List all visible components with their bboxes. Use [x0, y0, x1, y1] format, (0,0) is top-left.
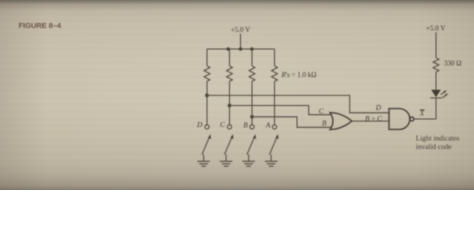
svg-text:FIGURE 8–4: FIGURE 8–4 — [19, 21, 62, 30]
NAND output bubble — [410, 117, 414, 121]
svg-text:D: D — [196, 121, 203, 129]
wire node B to OR bottom input — [252, 117, 331, 128]
wire node D to NAND top input — [207, 95, 389, 112]
switch SW-D contact circle — [205, 125, 209, 129]
svg-text:C: C — [319, 107, 324, 115]
resistor R2 (pull-up, C column) — [227, 66, 233, 81]
wire +5V stub (left) — [240, 34, 242, 49]
junction dot rail at C column — [226, 47, 230, 51]
svg-text:B: B — [322, 120, 327, 128]
wire rail to resistor R3 — [251, 49, 253, 66]
LED D1 cathode bar — [430, 97, 441, 99]
svg-text:D: D — [375, 104, 382, 112]
resistor R3 (pull-up, B column) — [249, 66, 255, 81]
NAND gate U2 — [389, 109, 410, 130]
wire NAND output to LED branch — [414, 118, 436, 120]
junction dot node D — [205, 94, 209, 98]
svg-text:330 Ω: 330 Ω — [444, 59, 461, 67]
switch SW-A contact circle — [272, 125, 276, 129]
wire resistor to LED anode — [435, 72, 437, 90]
wire SW-A to ground — [270, 154, 272, 161]
ground (D switch) — [197, 161, 210, 166]
junction dot node B — [250, 115, 254, 119]
junction dot node C — [228, 104, 232, 108]
ground (A switch) — [265, 161, 278, 166]
resistor R4 (pull-up, A column) — [272, 66, 278, 81]
resistor R5 330 ohm — [433, 58, 439, 72]
wire LED cathode down to output node — [435, 99, 437, 120]
wire SW-B to ground — [248, 154, 250, 161]
LED light arrow 2 — [442, 94, 447, 97]
LED D1 triangle — [431, 90, 441, 97]
ground (C switch) — [220, 161, 233, 166]
switch SW-A lever with arrowhead — [269, 136, 277, 155]
svg-text:+5.0 V: +5.0 V — [231, 26, 250, 34]
svg-text:C: C — [220, 121, 225, 129]
wire +5V stub (right) — [435, 32, 437, 58]
switch SW-B contact circle — [250, 125, 254, 129]
svg-text:X: X — [419, 110, 425, 118]
switch SW-C contact circle — [227, 125, 231, 129]
svg-text:+5.0 V: +5.0 V — [426, 25, 445, 33]
ground (B switch) — [242, 161, 255, 166]
switch SW-B lever with arrowhead — [247, 136, 255, 155]
wire rail to resistor R1 — [206, 49, 208, 66]
wire resistor R4 to switch A — [274, 81, 276, 125]
wire rail to resistor R4 — [274, 49, 276, 66]
switch SW-D lever with arrowhead — [202, 136, 210, 155]
svg-text:B + C: B + C — [365, 115, 382, 123]
wire resistor R1 to switch D — [206, 81, 208, 125]
wire node C to OR top input — [230, 106, 332, 115]
wire resistor R2 to switch C — [229, 81, 231, 125]
wire +5V rail — [207, 48, 275, 50]
wire SW-C to ground — [225, 154, 227, 161]
wire OR output (B+C) to NAND bottom input — [352, 120, 389, 122]
wire resistor R3 to switch B — [251, 81, 253, 125]
svg-text:invalid code: invalid code — [416, 142, 452, 151]
svg-text:A: A — [265, 122, 271, 130]
LED light arrow 1 — [441, 91, 446, 94]
resistor R1 (pull-up, D column) — [204, 66, 210, 81]
svg-text:R's = 1.0 kΩ: R's = 1.0 kΩ — [281, 71, 317, 79]
junction dot rail at +5V stub — [239, 47, 243, 51]
wire rail to resistor R2 — [229, 49, 231, 66]
svg-text:B: B — [243, 122, 248, 130]
wire SW-D to ground — [203, 154, 205, 161]
switch SW-C lever with arrowhead — [224, 136, 232, 155]
OR gate U1 (B+C) — [330, 113, 352, 130]
junction dot rail at B column — [250, 47, 254, 51]
